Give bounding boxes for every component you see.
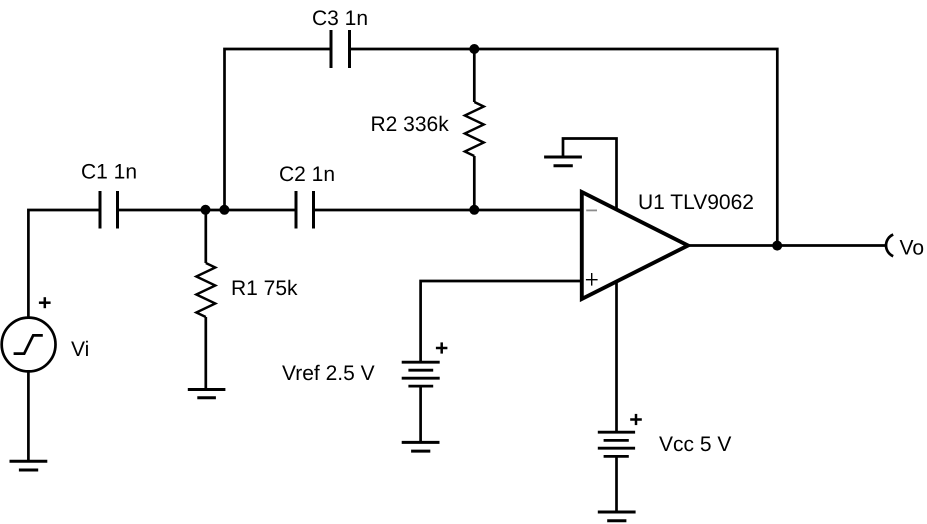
wire: R1 top stub xyxy=(204,210,207,263)
capacitor C1 xyxy=(100,191,118,229)
node: R2 top on feedback row xyxy=(469,44,479,54)
port symbol Vo (left parenthesis arc) xyxy=(886,235,893,257)
wire: C3 right plate to right feedback riser, down to output node xyxy=(350,49,778,246)
battery Vcc 5V xyxy=(598,432,635,456)
wire: op-amp output to port Vo xyxy=(688,244,885,247)
capacitor C3 xyxy=(331,30,350,68)
node: output feedback tap xyxy=(772,241,782,251)
ground (Vref) xyxy=(402,442,440,451)
svg-text:C1 1n: C1 1n xyxy=(81,161,137,184)
ground (Vcc) xyxy=(598,512,636,521)
ground (op-amp supply) xyxy=(544,157,582,166)
wire: Vref bottom stub to ground xyxy=(419,386,422,442)
ramp symbol inside Vi xyxy=(14,335,43,353)
op-amp U1 triangle xyxy=(582,192,688,299)
ground (R1) xyxy=(188,390,226,398)
node: C3 riser tap on input row xyxy=(219,205,229,215)
wire: R2 bottom stub xyxy=(473,156,476,210)
wire: R1 bottom stub to ground xyxy=(204,317,207,390)
wire: Vcc bottom stub to ground xyxy=(615,456,618,512)
op-amp inverting input marker (gray minus) xyxy=(586,209,597,211)
plus polarity mark (Vi) xyxy=(39,297,51,308)
capacitor C2 xyxy=(296,191,314,229)
wire: R2 top stub xyxy=(473,49,476,102)
resistor R1 xyxy=(196,263,215,317)
svg-text:Vi: Vi xyxy=(71,338,89,361)
wire: op-amp V- L-wire to ground xyxy=(563,139,617,210)
resistor R2 xyxy=(465,102,484,156)
svg-text:C2 1n: C2 1n xyxy=(279,163,335,186)
svg-text:U1 TLV9062: U1 TLV9062 xyxy=(638,191,754,214)
plus polarity mark (Vcc) xyxy=(630,414,642,425)
svg-text:Vcc 5 V: Vcc 5 V xyxy=(659,433,731,456)
svg-text:C3 1n: C3 1n xyxy=(312,7,368,30)
wire: Vcc riser from op-amp bottom edge xyxy=(615,283,618,432)
svg-text:Vo: Vo xyxy=(900,237,925,260)
wire: op-amp noninverting input row y=281 and Vref riser xyxy=(421,281,582,362)
voltage source Vi xyxy=(2,318,56,372)
svg-text:R2 336k: R2 336k xyxy=(371,113,450,136)
plus polarity mark (Vref) xyxy=(436,342,448,353)
svg-text:R1 75k: R1 75k xyxy=(231,277,298,300)
node: R1 tap on input row xyxy=(201,205,211,215)
wire: Vi bottom stub to ground xyxy=(27,371,30,461)
wire: C2 right plate to op-amp inverting input xyxy=(314,209,582,212)
wire: riser to C3 feedback branch and top row to C3 left plate xyxy=(225,49,332,210)
svg-text:Vref 2.5 V: Vref 2.5 V xyxy=(282,362,375,385)
wire: main input row y=210 from Vi riser down to source, corner at left xyxy=(28,210,100,318)
ground (Vi) xyxy=(10,461,48,470)
wire: C1 right plate to C2 left plate through junctions xyxy=(118,209,297,212)
junction node dots xyxy=(201,44,783,251)
node: R2 bottom on inverting input row xyxy=(469,205,479,215)
op-amp noninverting input marker (plus) xyxy=(586,273,598,286)
battery Vref 2.5V xyxy=(402,362,440,386)
